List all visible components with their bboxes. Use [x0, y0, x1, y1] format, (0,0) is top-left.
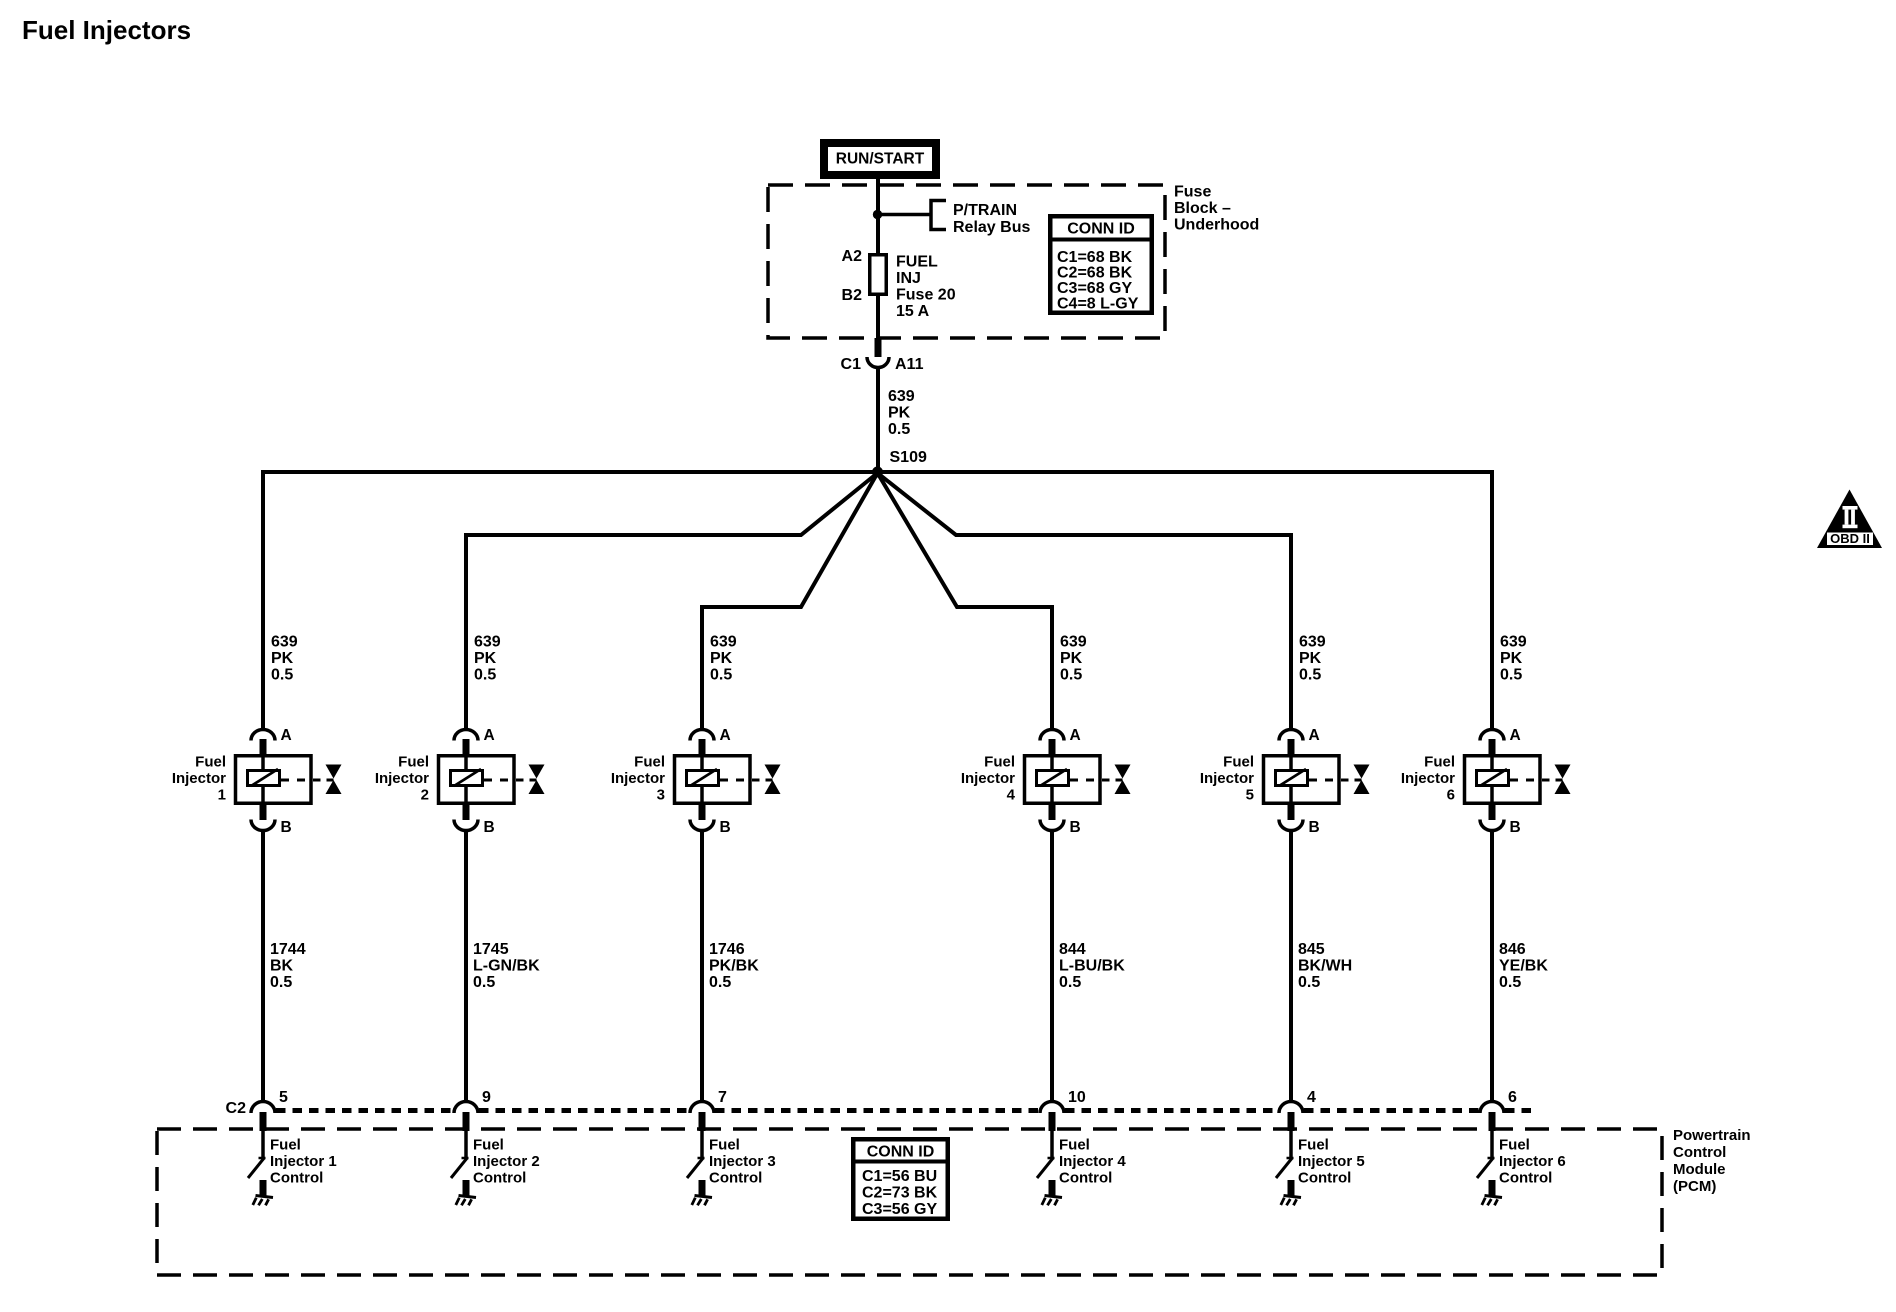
wire RUN/START to fuse [876, 179, 880, 253]
label Powertrain Control Module (PCM) [1673, 1127, 1751, 1195]
connector pin 10 (injector 4 control) [1040, 1089, 1086, 1131]
wire splice to injector 4 [878, 473, 1053, 728]
svg-text:Injector 3: Injector 3 [709, 1153, 776, 1170]
svg-text:(PCM): (PCM) [1673, 1178, 1716, 1195]
connector pin 6 (injector 6 control) [1480, 1089, 1517, 1131]
svg-text:6: 6 [1508, 1089, 1517, 1106]
ground (injector 5 driver) [1281, 1196, 1301, 1206]
svg-text:C1=68 BK: C1=68 BK [1057, 249, 1133, 266]
wire splice to injector 2 [466, 473, 878, 728]
svg-text:B: B [484, 819, 495, 836]
svg-text:0.5: 0.5 [710, 667, 732, 684]
svg-text:Injector: Injector [611, 770, 665, 787]
fuel injector 1 [172, 754, 342, 804]
svg-text:Fuel: Fuel [984, 754, 1015, 771]
OBD II symbol [1817, 490, 1882, 549]
svg-text:PK: PK [1299, 650, 1322, 667]
svg-text:Injector 6: Injector 6 [1499, 1153, 1566, 1170]
connector terminal A (injector 6) [1480, 727, 1521, 756]
svg-text:Injector: Injector [961, 770, 1015, 787]
svg-text:6: 6 [1447, 787, 1455, 804]
svg-text:1745: 1745 [473, 941, 509, 958]
svg-text:3: 3 [657, 787, 665, 804]
svg-text:PK: PK [474, 650, 497, 667]
svg-text:Underhood: Underhood [1174, 217, 1259, 234]
svg-text:Control: Control [1499, 1170, 1552, 1187]
label Fuel Injector 6 Control [1499, 1137, 1566, 1187]
svg-text:A: A [1070, 727, 1081, 744]
svg-text:5: 5 [1246, 787, 1254, 804]
wire label 639 PK 0.5 (injector 5 feed) [1299, 634, 1326, 684]
powertrain control module dashed box [157, 1129, 1662, 1275]
svg-text:Injector 1: Injector 1 [270, 1153, 337, 1170]
svg-text:A: A [1309, 727, 1320, 744]
wire injector 6 to PCM [1490, 831, 1494, 1101]
svg-text:Fuel: Fuel [398, 754, 429, 771]
svg-text:Powertrain: Powertrain [1673, 1127, 1751, 1144]
svg-text:9: 9 [482, 1089, 491, 1106]
svg-text:B: B [720, 819, 731, 836]
connector terminal A (injector 1) [251, 727, 292, 756]
svg-text:Fuel: Fuel [1059, 1137, 1090, 1154]
svg-text:639: 639 [1060, 634, 1087, 651]
svg-text:639: 639 [888, 388, 915, 405]
wire label 1746 PK/BK 0.5 [709, 941, 759, 991]
connector terminal B (injector 2) [454, 803, 495, 836]
svg-text:639: 639 [710, 634, 737, 651]
svg-text:0.5: 0.5 [1059, 974, 1081, 991]
ground (injector 2 driver) [456, 1196, 476, 1206]
svg-text:P/TRAIN: P/TRAIN [953, 202, 1017, 219]
wire injector 3 to PCM [700, 831, 704, 1101]
svg-text:844: 844 [1059, 941, 1086, 958]
svg-text:Fuel: Fuel [270, 1137, 301, 1154]
svg-text:Injector: Injector [375, 770, 429, 787]
svg-text:5: 5 [279, 1089, 288, 1106]
svg-text:INJ: INJ [896, 270, 921, 287]
svg-text:7: 7 [718, 1089, 727, 1106]
svg-text:639: 639 [1299, 634, 1326, 651]
fuel injector 6 [1401, 754, 1571, 804]
svg-text:Injector: Injector [1200, 770, 1254, 787]
svg-text:L-GN/BK: L-GN/BK [473, 958, 540, 975]
svg-text:C2: C2 [226, 1100, 247, 1117]
fuel injector 2 [375, 754, 545, 804]
svg-text:S109: S109 [890, 449, 927, 466]
label Fuse Block - Underhood [1174, 184, 1259, 234]
svg-text:YE/BK: YE/BK [1499, 958, 1548, 975]
fuse FUEL INJ Fuse 20 15 A [870, 255, 887, 295]
svg-text:CONN ID: CONN ID [867, 1144, 935, 1161]
svg-text:0.5: 0.5 [1499, 974, 1521, 991]
svg-text:846: 846 [1499, 941, 1526, 958]
connector pin 9 (injector 2 control) [454, 1089, 491, 1131]
ground (injector 6 driver) [1482, 1196, 1502, 1206]
svg-text:0.5: 0.5 [473, 974, 495, 991]
svg-text:15 A: 15 A [896, 303, 930, 320]
wire label 639 PK 0.5 (injector 6 feed) [1500, 634, 1527, 684]
svg-text:639: 639 [1500, 634, 1527, 651]
wire to P/TRAIN relay bus [878, 213, 931, 217]
svg-text:A11: A11 [895, 356, 924, 373]
svg-text:FUEL: FUEL [896, 254, 938, 271]
svg-text:Control: Control [270, 1170, 323, 1187]
injector 1 driver switch [248, 1131, 266, 1196]
splice S109 dot [872, 467, 883, 478]
svg-text:Fuel: Fuel [1499, 1137, 1530, 1154]
wire label 639 PK 0.5 (injector 1 feed) [271, 634, 298, 684]
connector terminal B (injector 1) [251, 803, 292, 836]
svg-text:OBD II: OBD II [1830, 531, 1870, 546]
svg-text:Injector 5: Injector 5 [1298, 1153, 1365, 1170]
wire label 639 PK 0.5 (injector 2 feed) [474, 634, 501, 684]
svg-text:Control: Control [1673, 1144, 1726, 1161]
svg-text:C3=56 GY: C3=56 GY [862, 1201, 937, 1218]
wire label 639 PK 0.5 (feed) [888, 388, 915, 438]
wire injector 1 to PCM [261, 831, 265, 1101]
svg-text:Fuel: Fuel [634, 754, 665, 771]
P/TRAIN relay bus terminal bracket [931, 201, 946, 230]
svg-text:1744: 1744 [270, 941, 306, 958]
label Fuel Injector 3 Control [709, 1137, 776, 1187]
svg-text:Relay Bus: Relay Bus [953, 219, 1030, 236]
svg-text:Fuse 20: Fuse 20 [896, 287, 956, 304]
power feed box RUN/START [824, 143, 936, 175]
connector pin 5 (injector 1 control) [251, 1089, 288, 1131]
svg-text:Fuse: Fuse [1174, 184, 1211, 201]
svg-text:A: A [1510, 727, 1521, 744]
svg-text:845: 845 [1298, 941, 1325, 958]
svg-text:Fuel: Fuel [709, 1137, 740, 1154]
svg-text:Fuel: Fuel [1223, 754, 1254, 771]
svg-text:C2=68 BK: C2=68 BK [1057, 265, 1133, 282]
wire label 639 PK 0.5 (injector 4 feed) [1060, 634, 1087, 684]
wire splice to injector 5 [878, 473, 1292, 728]
fuel injector 4 [961, 754, 1131, 804]
wire label 1745 L-GN/BK 0.5 [473, 941, 540, 991]
wire label 845 BK/WH 0.5 [1298, 941, 1352, 991]
ground (injector 3 driver) [692, 1196, 712, 1206]
CONN ID table (PCM) [851, 1139, 950, 1219]
connector terminal A (injector 2) [454, 727, 495, 756]
svg-text:4: 4 [1307, 1089, 1316, 1106]
injector 3 driver switch [687, 1131, 705, 1196]
svg-text:Injector 4: Injector 4 [1059, 1153, 1126, 1170]
svg-text:0.5: 0.5 [474, 667, 496, 684]
connector C1 / A11 [867, 357, 889, 368]
label Fuel Injector 4 Control [1059, 1137, 1126, 1187]
svg-text:0.5: 0.5 [709, 974, 731, 991]
svg-text:L-BU/BK: L-BU/BK [1059, 958, 1125, 975]
svg-text:RUN/START: RUN/START [836, 151, 925, 168]
svg-text:C4=8 L-GY: C4=8 L-GY [1057, 296, 1139, 313]
ground (injector 1 driver) [253, 1196, 273, 1206]
svg-text:Control: Control [1298, 1170, 1351, 1187]
junction dot (P/TRAIN tap) [873, 210, 882, 219]
wire label 639 PK 0.5 (injector 3 feed) [710, 634, 737, 684]
svg-text:Fuel Injectors: Fuel Injectors [22, 15, 191, 45]
label Fuel Injector 2 Control [473, 1137, 540, 1187]
svg-text:2: 2 [421, 787, 429, 804]
CONN ID table (fuse block) [1048, 216, 1154, 313]
svg-text:Injector: Injector [1401, 770, 1455, 787]
injector 2 driver switch [451, 1131, 469, 1196]
svg-text:PK/BK: PK/BK [709, 958, 759, 975]
svg-text:Fuel: Fuel [1298, 1137, 1329, 1154]
svg-text:B: B [1510, 819, 1521, 836]
svg-text:0.5: 0.5 [270, 974, 292, 991]
connector pin 4 (injector 5 control) [1279, 1089, 1316, 1131]
svg-text:Control: Control [709, 1170, 762, 1187]
svg-text:Fuel: Fuel [1424, 754, 1455, 771]
svg-text:639: 639 [271, 634, 298, 651]
wire injector 2 to PCM [464, 831, 468, 1101]
svg-text:C1=56 BU: C1=56 BU [862, 1168, 937, 1185]
wire label 846 YE/BK 0.5 [1499, 941, 1548, 991]
svg-text:A: A [281, 727, 292, 744]
fuse block underhood dashed box [768, 185, 1165, 338]
injector 5 driver switch [1276, 1131, 1294, 1196]
svg-text:BK/WH: BK/WH [1298, 958, 1352, 975]
label P/TRAIN Relay Bus [953, 202, 1030, 236]
connector terminal B (injector 6) [1480, 803, 1521, 836]
connector terminal A (injector 4) [1040, 727, 1081, 756]
fuel injector 3 [611, 754, 781, 804]
connector terminal B (injector 4) [1040, 803, 1081, 836]
svg-text:PK: PK [271, 650, 294, 667]
wire label 844 L-BU/BK 0.5 [1059, 941, 1125, 991]
injector 6 driver switch [1477, 1131, 1495, 1196]
svg-text:0.5: 0.5 [1299, 667, 1321, 684]
svg-text:B2: B2 [842, 287, 863, 304]
label Fuel Injector 5 Control [1298, 1137, 1365, 1187]
wire injector 4 to PCM [1050, 831, 1054, 1101]
svg-text:Injector: Injector [172, 770, 226, 787]
svg-text:Control: Control [473, 1170, 526, 1187]
wire injector 5 to PCM [1289, 831, 1293, 1101]
svg-text:0.5: 0.5 [1500, 667, 1522, 684]
main bus wire (injector 1 to injector 6) [263, 472, 1492, 728]
svg-text:Fuel: Fuel [195, 754, 226, 771]
svg-text:Injector 2: Injector 2 [473, 1153, 540, 1170]
svg-text:PK: PK [710, 650, 733, 667]
connector terminal B (injector 3) [690, 803, 731, 836]
svg-text:B: B [1070, 819, 1081, 836]
PCM connector boundary dotted line [276, 1108, 453, 1113]
svg-text:B: B [1309, 819, 1320, 836]
svg-text:0.5: 0.5 [1060, 667, 1082, 684]
connector terminal B (injector 5) [1279, 803, 1320, 836]
ground (injector 4 driver) [1042, 1196, 1062, 1206]
svg-text:C3=68 GY: C3=68 GY [1057, 280, 1132, 297]
wire label 1744 BK 0.5 [270, 941, 306, 991]
connector terminal A (injector 5) [1279, 727, 1320, 756]
svg-text:10: 10 [1068, 1089, 1086, 1106]
svg-text:PK: PK [1500, 650, 1523, 667]
svg-text:Module: Module [1673, 1161, 1726, 1178]
svg-text:0.5: 0.5 [888, 421, 910, 438]
svg-text:0.5: 0.5 [1298, 974, 1320, 991]
wire fuse to connector C1/A11 [876, 296, 880, 338]
injector 4 driver switch [1037, 1131, 1055, 1196]
svg-text:0.5: 0.5 [271, 667, 293, 684]
svg-text:Control: Control [1059, 1170, 1112, 1187]
connector pin 7 (injector 3 control) [690, 1089, 727, 1131]
svg-text:C2=73 BK: C2=73 BK [862, 1185, 938, 1202]
svg-text:C1: C1 [841, 356, 862, 373]
svg-text:PK: PK [888, 405, 911, 422]
fuel injector 5 [1200, 754, 1370, 804]
svg-text:A2: A2 [842, 248, 863, 265]
svg-text:1746: 1746 [709, 941, 745, 958]
label Fuel Injector 1 Control [270, 1137, 337, 1187]
svg-text:B: B [281, 819, 292, 836]
connector terminal A (injector 3) [690, 727, 731, 756]
svg-text:CONN ID: CONN ID [1067, 221, 1135, 238]
svg-text:4: 4 [1007, 787, 1016, 804]
svg-text:PK: PK [1060, 650, 1083, 667]
wire splice to injector 3 [702, 473, 878, 728]
svg-text:BK: BK [270, 958, 294, 975]
wire connector to splice S109 [876, 368, 880, 473]
svg-text:639: 639 [474, 634, 501, 651]
svg-text:A: A [484, 727, 495, 744]
svg-text:1: 1 [218, 787, 226, 804]
svg-text:Fuel: Fuel [473, 1137, 504, 1154]
svg-text:A: A [720, 727, 731, 744]
svg-text:Block –: Block – [1174, 200, 1231, 217]
